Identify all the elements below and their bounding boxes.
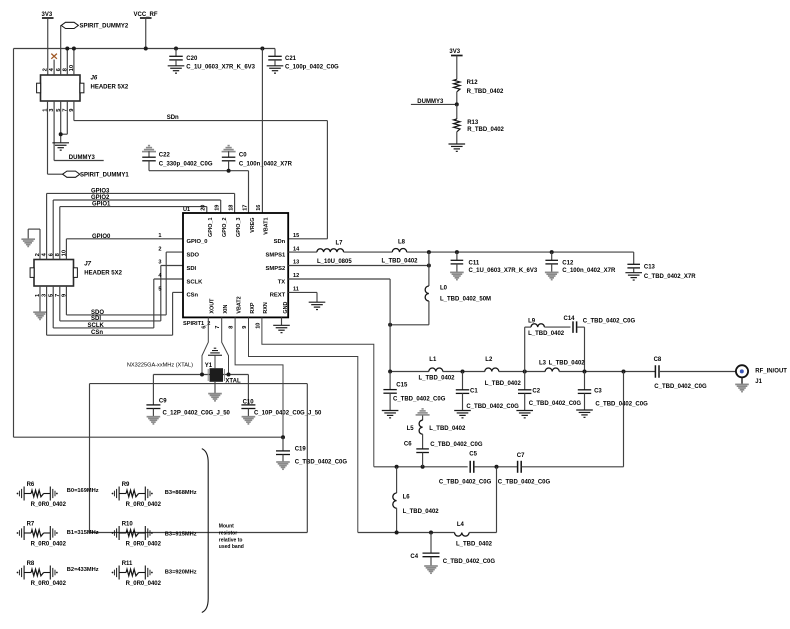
svg-text:Y1: Y1 [205,363,213,369]
svg-text:HEADER 5X2: HEADER 5X2 [84,271,122,277]
svg-text:R_TBD_0402: R_TBD_0402 [467,89,504,95]
junction L6 top [395,465,399,469]
svg-text:10: 10 [255,323,261,329]
wire XIN to crystal [222,317,229,374]
svg-text:C2: C2 [532,388,540,394]
resistor R8 [17,561,67,587]
power arrow above C22 [148,145,150,147]
wire J6 pin 6 to SPIRIT_DUMMY2 [60,25,62,75]
ground under C13 [625,272,642,274]
svg-text:CSn: CSn [91,330,103,336]
svg-text:L_10U_0805: L_10U_0805 [317,259,352,265]
wire left vertical rail [13,49,15,438]
junction DUMMY3 node [455,102,459,106]
svg-text:C21: C21 [285,56,297,62]
svg-text:J7: J7 [84,262,91,268]
U1 left pin numbers 1-5 [158,233,162,293]
ground under J6 [52,142,69,144]
ground under Y1 [208,393,222,395]
connector J6 HEADER 5X2 [37,75,129,101]
wire J7 pin 1 to ground [39,286,41,312]
power arrow above C0 [228,145,230,147]
svg-text:2: 2 [158,246,161,252]
svg-text:C_TBD_0402_C0G: C_TBD_0402_C0G [439,480,492,486]
connector J1 RF_IN/OUT [736,365,787,385]
svg-text:VCC_RF: VCC_RF [134,12,158,18]
svg-text:RF_IN/OUT: RF_IN/OUT [755,368,787,374]
wire RX row segment 3 [522,466,624,468]
ground above crystal [208,348,222,368]
junction C1 node [461,370,465,374]
svg-text:R13: R13 [467,120,479,126]
capacitor C14 [564,316,636,333]
U1 bottom pin names [210,296,289,313]
svg-text:3V3: 3V3 [449,49,460,55]
svg-text:3: 3 [158,260,161,266]
power arrow above L5 [422,408,424,410]
svg-text:B2=433MHz: B2=433MHz [67,567,99,573]
inductor L1 [419,357,456,382]
junction SMPS2 [427,264,431,268]
svg-text:C_TBD_0402_C0G: C_TBD_0402_C0G [443,559,496,565]
wire J6 pin 4 stub [53,60,55,75]
svg-text:R8: R8 [27,561,35,567]
svg-text:C0: C0 [239,152,247,158]
svg-text:14: 14 [293,246,300,252]
svg-text:C9: C9 [159,399,167,405]
junction C11 [455,250,459,254]
capacitor C7 [498,453,551,486]
svg-text:C3: C3 [594,388,602,394]
ground under C3 [576,409,593,411]
capacitor C6 [404,434,483,467]
wire SDn drop to U1 pin 15 [288,121,327,239]
ground at REXT [309,301,326,303]
power symbol 3V3 (top left) [42,12,54,18]
svg-text:L_TBD_0402: L_TBD_0402 [429,426,466,432]
junction crystal right [227,373,231,377]
svg-text:R_TBD_0402: R_TBD_0402 [467,127,504,133]
svg-text:HEADER 5X2: HEADER 5X2 [91,85,129,91]
wire VBAT1 riser [261,49,263,214]
U1 top pin numbers 20-16 [201,205,263,211]
ground under C20 [168,65,185,67]
svg-text:XOUT: XOUT [210,298,216,314]
svg-text:R_0R0_0402: R_0R0_0402 [126,541,162,547]
U1 left pin names [187,239,208,299]
capacitor C9 [146,375,230,417]
wire J6 pin 3 DUMMY3 stub [54,101,104,161]
svg-text:C_TBD_0402_C0G: C_TBD_0402_C0G [595,401,648,407]
svg-text:L5: L5 [407,426,415,432]
junction J6 pin 10 [72,47,76,51]
capacitor C20 [169,49,255,71]
svg-text:R12: R12 [467,80,479,86]
ground under C2 [516,410,533,412]
svg-text:C14: C14 [564,316,576,322]
svg-text:C11: C11 [469,260,480,266]
svg-text:RXN: RXN [263,302,269,313]
svg-text:SPIRIT_DUMMY1: SPIRIT_DUMMY1 [80,173,129,179]
svg-text:L7: L7 [336,241,344,247]
svg-text:C20: C20 [186,56,198,62]
svg-text:R9: R9 [122,482,130,488]
wire TX pin 12 [288,279,390,372]
off-page connector SPIRIT_DUMMY2 [61,22,129,29]
svg-text:DUMMY3: DUMMY3 [69,155,96,161]
svg-text:C_100p_0402_C0G: C_100p_0402_C0G [285,64,339,70]
junction C20 tap [174,47,178,51]
svg-text:17: 17 [242,205,248,211]
junction C4 top [429,531,433,535]
svg-text:L_TBD_0402_50M: L_TBD_0402_50M [440,297,491,303]
svg-text:resistor: resistor [219,530,237,536]
wire VCC_RF stem [145,18,147,49]
wire DUMMY3 stub [411,103,457,105]
wire J7 pin 2 to ground [28,229,40,259]
svg-text:SDn: SDn [274,239,286,245]
capacitor C21 [268,49,339,71]
wire top VCC rail [14,48,276,50]
svg-text:L1: L1 [429,357,437,363]
svg-text:GPIO_3: GPIO_3 [236,218,242,237]
wire J6 pin 9 SDn [74,101,328,121]
junction RX merge node [622,370,626,374]
junction C15 node [388,370,392,374]
junction C0 on VREG [227,169,231,173]
svg-text:GPIO_0: GPIO_0 [187,239,208,245]
svg-text:C12: C12 [562,260,574,266]
wire RF row segment 2 [443,371,485,373]
wire U1 GND pin stub [281,317,283,325]
svg-text:C_TBD_0402_C0G: C_TBD_0402_C0G [498,480,551,486]
wire band bus right riser [306,384,308,533]
no-connect X on J6 pin 4 [51,54,57,59]
junction C12 [550,250,554,254]
svg-text:C_TBD_0402_C0G: C_TBD_0402_C0G [654,384,707,390]
wire RF row segment 3 [499,371,545,373]
svg-text:C_TBD_0402_C0G: C_TBD_0402_C0G [295,459,348,465]
ground under C12 [545,271,559,273]
junction J6 pins 5-7 [59,132,63,136]
svg-text:VREG: VREG [250,218,256,233]
svg-text:20: 20 [201,205,207,211]
svg-text:GPIO_2: GPIO_2 [222,218,228,237]
inductor L6 [393,467,439,533]
U1 right pin numbers 15-11 [293,233,300,293]
svg-text:6: 6 [202,326,208,329]
svg-text:C_TBD_0402_C0G: C_TBD_0402_C0G [466,404,519,410]
svg-text:C15: C15 [396,383,408,389]
ground under C19 [276,461,290,463]
svg-text:L_TBD_0402: L_TBD_0402 [485,381,522,387]
wire RXN net [262,317,374,466]
svg-text:11: 11 [293,287,299,293]
svg-text:U1: U1 [183,207,190,213]
wire RX merge riser [623,372,625,467]
svg-text:L_TBD_0402: L_TBD_0402 [528,331,565,337]
wire band bus top rail [90,383,308,385]
svg-text:J1: J1 [755,379,762,385]
junction L0 tap [427,250,431,254]
svg-text:R6: R6 [27,482,35,488]
svg-text:SCLK: SCLK [187,279,204,285]
ground under C9 [147,416,161,418]
svg-text:C_TBD_0402_C0G: C_TBD_0402_C0G [430,442,483,448]
wire SMPS2 pin 13 [288,265,429,267]
ground under C10 [242,416,256,418]
svg-text:L9: L9 [528,318,536,324]
svg-text:18: 18 [228,205,234,211]
svg-text:1: 1 [158,233,161,239]
inductor L2 [485,357,522,387]
wire GPIO2 net [53,200,221,260]
note Mount resistor relative to used band [219,524,244,551]
ground at J7 pin 2 [21,238,35,240]
power symbol VCC_RF [134,12,158,18]
svg-text:R7: R7 [27,522,35,528]
wire XOUT to crystal [202,317,208,374]
svg-text:SMPS1: SMPS1 [266,252,286,258]
junction J6 pin 8 [65,47,69,51]
svg-text:C_10P_0402_C0G_J_50: C_10P_0402_C0G_J_50 [254,411,322,417]
svg-text:C13: C13 [644,265,656,271]
capacitor C1 [456,372,519,411]
svg-text:B0=169MHz: B0=169MHz [67,488,99,494]
svg-text:C4: C4 [410,554,418,560]
svg-text:L_TBD_0402: L_TBD_0402 [456,541,493,547]
wire C14 to branch right [577,327,585,371]
inductor L5 [407,416,466,435]
capacitor C0 [222,151,293,171]
svg-text:C_12P_0402_C0G_J_50: C_12P_0402_C0G_J_50 [163,411,231,417]
U1 top pin names [208,218,270,237]
svg-text:SMPS2: SMPS2 [266,266,286,272]
wire GPIO3 net [47,193,235,259]
wire L4 row to riser [469,467,496,533]
svg-text:C_TBD_0402_C0G: C_TBD_0402_C0G [529,401,582,407]
inductor L0 [390,252,491,325]
svg-text:C7: C7 [517,453,525,459]
resistor R9 [112,482,162,508]
capacitor C3 [578,372,648,411]
svg-text:relative to: relative to [219,537,243,543]
junction C3 node [583,370,587,374]
wire REXT pin 11 [288,292,317,302]
svg-text:GPIO_1: GPIO_1 [208,218,214,237]
IC U1 SPIRIT1_2 [183,207,288,327]
svg-text:XIN: XIN [223,305,229,314]
svg-text:C_100n_0402_X7R: C_100n_0402_X7R [239,162,293,168]
svg-text:R11: R11 [122,561,133,567]
svg-text:GPIO1: GPIO1 [92,202,111,208]
svg-text:15: 15 [293,233,299,239]
svg-text:C_1U_0603_X7R_K_6V3: C_1U_0603_X7R_K_6V3 [186,64,255,70]
wire RX row segment 2 [474,466,517,468]
svg-text:L4: L4 [457,522,465,528]
inductor L3 [539,361,585,372]
svg-text:B3=868MHz: B3=868MHz [165,490,197,496]
capacitor C10 [241,375,322,417]
capacitor C19 [276,437,347,465]
capacitor C11 [451,252,538,274]
svg-text:SDO: SDO [187,252,200,258]
ground under J7 [33,311,47,313]
svg-text:GPIO0: GPIO0 [92,234,111,240]
junction C6 bottom [421,465,425,469]
svg-text:SDI: SDI [91,316,101,322]
svg-text:VBAT1: VBAT1 [264,218,270,235]
svg-text:C_100n_0402_X7R: C_100n_0402_X7R [562,268,616,274]
svg-text:SDI: SDI [187,266,197,272]
ground under C15 [382,410,399,412]
J7 bottom pin numbers 1 3 5 7 9 [35,293,67,297]
svg-text:R10: R10 [122,522,134,528]
svg-text:L3: L3 [539,361,547,367]
ground under C11 [450,271,464,273]
ground under C1 [454,410,471,412]
capacitor C5 [439,451,492,485]
wire C8 to J1 [660,371,736,373]
svg-text:L8: L8 [398,239,406,245]
svg-text:L6: L6 [403,495,411,501]
svg-text:REXT: REXT [270,293,286,299]
brace mount note [202,449,208,613]
resistor R12 [454,56,504,105]
svg-text:C10: C10 [243,400,255,406]
svg-text:L_TBD_0402: L_TBD_0402 [403,509,440,515]
svg-text:RXP: RXP [250,302,256,313]
wire L7 to L8 [344,251,393,253]
junction VBAT1 tap [260,47,264,51]
svg-text:L2: L2 [485,357,493,363]
svg-text:C1: C1 [470,388,478,394]
wire J6 pin 1 to SPIRIT_DUMMY1 [48,101,64,174]
wire Y1 case stem [214,382,216,394]
svg-text:16: 16 [256,205,262,211]
svg-text:C_330p_0402_C0G: C_330p_0402_C0G [159,162,213,168]
wire RF row segment 4 [559,371,655,373]
svg-text:TX: TX [278,279,286,285]
junction L6 bottom [395,531,399,535]
svg-text:2: 2 [43,68,49,71]
svg-text:C_TBD_0402_C0G: C_TBD_0402_C0G [393,397,446,403]
svg-text:7: 7 [215,326,221,329]
svg-text:CSn: CSn [187,293,199,299]
svg-text:C8: C8 [654,357,662,363]
wire L9 to C14 [544,326,570,328]
capacitor C8 [654,357,707,390]
capacitor C15 [383,372,445,411]
svg-text:DUMMY3: DUMMY3 [417,99,444,105]
capacitor C12 [545,252,616,274]
svg-text:GND: GND [283,302,289,314]
svg-text:R_0R0_0402: R_0R0_0402 [31,581,67,587]
junction crystal left [200,373,204,377]
svg-text:R_0R0_0402: R_0R0_0402 [126,581,162,587]
svg-text:5: 5 [158,287,161,293]
resistor R11 [112,561,162,587]
wire L4 row segment 1 [358,532,455,534]
svg-text:C5: C5 [469,451,477,457]
svg-text:J6: J6 [91,76,98,82]
ground under R13 [449,143,466,145]
wire CSn net [47,286,183,335]
svg-text:3V3: 3V3 [42,12,53,18]
svg-text:GPIO2: GPIO2 [91,195,110,201]
wire RXP net [249,317,358,532]
svg-text:VBAT2: VBAT2 [236,296,242,313]
junction C19 node [281,435,285,439]
svg-text:R_0R0_0402: R_0R0_0402 [31,502,67,508]
wire SMPS1 pin 14 [288,251,317,253]
connector J7 HEADER 5X2 [30,260,123,287]
wire VREG net [149,171,249,213]
svg-text:used band: used band [219,544,244,550]
wire VBAT2 net [235,317,283,437]
svg-text:GPIO3: GPIO3 [91,188,110,194]
J6 top pin numbers 2 4 6 8 10 [43,65,75,71]
junction C2 node [523,370,527,374]
ground under J1 [735,383,749,385]
capacitor C2 [518,372,581,411]
svg-text:12: 12 [293,273,299,279]
inductor L7 [317,241,352,265]
wire bottom rail to C19 node [14,436,284,438]
svg-text:8: 8 [229,326,235,329]
capacitor C13 [627,252,696,280]
off-page connector SPIRIT_DUMMY1 [63,171,130,179]
wire 3V3 to J6 pin 2 [47,18,49,75]
capacitor C22 [142,151,213,171]
svg-text:C19: C19 [295,446,307,452]
resistor R7 [17,522,67,548]
capacitor C4 [410,533,495,567]
svg-text:NX3225GA-xxMHz (XTAL): NX3225GA-xxMHz (XTAL) [127,363,193,369]
svg-text:C_1U_0603_X7R_K_6V3: C_1U_0603_X7R_K_6V3 [469,268,538,274]
ground at U1 GND [273,324,290,326]
svg-text:B3=915MHz: B3=915MHz [165,532,197,538]
resistor R13 [454,104,505,144]
svg-text:13: 13 [293,260,299,266]
svg-text:R_0R0_0402: R_0R0_0402 [126,502,162,508]
wire SCLK net [53,279,183,328]
J6 bottom pin numbers 1 3 5 7 9 [43,108,75,112]
svg-text:SPIRIT_DUMMY2: SPIRIT_DUMMY2 [80,24,129,30]
svg-text:B1=315MHz: B1=315MHz [67,530,99,536]
power symbol 3V3 (divider) [449,49,462,56]
inductor L4 [455,522,493,547]
svg-text:L0: L0 [440,285,448,291]
wire J6 pin 5 to ground [60,101,62,143]
wire J6 pin 7 jog [61,101,68,134]
wire SDI net [60,266,183,321]
wire L9 branch left riser [524,327,526,371]
wire GPIO1 net [60,207,207,260]
ground under C21 [267,65,284,67]
resistor R10 [112,522,162,548]
inductor L9 [525,318,565,337]
svg-text:L_TBD_0402: L_TBD_0402 [549,361,586,367]
inductor L8 [382,239,419,264]
svg-text:SCLK: SCLK [88,323,105,329]
svg-text:L_TBD_0402: L_TBD_0402 [419,376,456,382]
wire RX row segment 1 [374,466,468,468]
svg-text:Mount: Mount [219,524,234,530]
U1 right pin names [266,239,286,299]
wire SDO net [66,252,183,315]
wire J6 pin 10 to rail [73,49,75,76]
